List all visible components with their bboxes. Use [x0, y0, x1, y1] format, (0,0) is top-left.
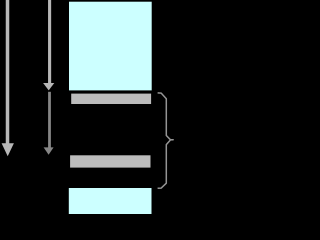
- block: bottom cyan rectangle: [69, 188, 152, 214]
- wire: middle upper arrow shaft: [48, 0, 51, 84]
- wire: middle lower arrow shaft: [48, 92, 51, 148]
- brace: right curly brace: [158, 93, 174, 188]
- block: gray band 2: [70, 155, 150, 167]
- wire: left long arrow shaft: [6, 0, 10, 144]
- block: gray band 1: [71, 94, 151, 104]
- node: left arrowhead: [2, 143, 14, 156]
- block: top cyan rectangle: [69, 2, 152, 91]
- node: middle lower arrowhead: [44, 147, 54, 154]
- node: middle upper arrowhead: [43, 83, 54, 90]
